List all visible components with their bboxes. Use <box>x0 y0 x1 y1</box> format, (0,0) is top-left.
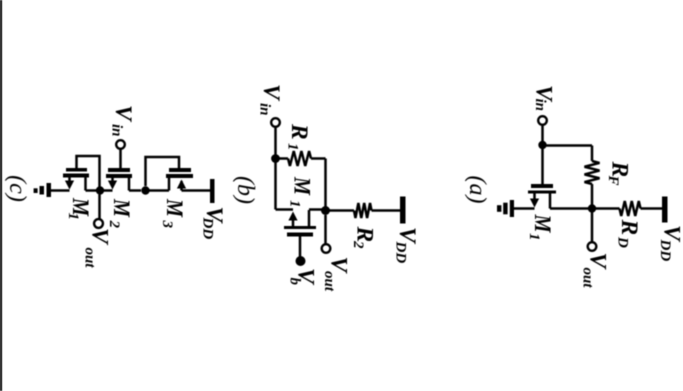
svg-text:out: out <box>321 271 337 292</box>
svg-text:R: R <box>286 123 312 140</box>
svg-text:2: 2 <box>350 240 366 249</box>
svg-text:in: in <box>532 99 548 112</box>
svg-text:DD: DD <box>393 241 409 264</box>
svg-text:3: 3 <box>159 220 175 229</box>
svg-text:R: R <box>616 219 642 236</box>
svg-text:F: F <box>605 175 621 186</box>
svg-text:M: M <box>162 198 189 218</box>
svg-text:1: 1 <box>65 213 81 221</box>
svg-text:D: D <box>615 236 631 248</box>
svg-text:M: M <box>109 198 136 218</box>
svg-text:V: V <box>258 84 284 102</box>
svg-text:out: out <box>82 248 98 269</box>
svg-text:V: V <box>87 228 113 246</box>
svg-text:(c): (c) <box>4 175 30 202</box>
svg-text:1: 1 <box>287 200 303 208</box>
svg-text:(a): (a) <box>464 176 490 204</box>
svg-text:1: 1 <box>285 143 301 151</box>
svg-text:DD: DD <box>200 217 216 240</box>
svg-text:M: M <box>530 214 557 234</box>
svg-text:1: 1 <box>526 233 542 241</box>
svg-text:R: R <box>352 226 378 243</box>
svg-text:(b): (b) <box>232 176 258 204</box>
svg-text:V: V <box>110 105 136 123</box>
svg-text:b: b <box>287 278 303 286</box>
svg-text:DD: DD <box>657 239 673 262</box>
svg-text:in: in <box>257 103 273 116</box>
svg-text:in: in <box>109 124 125 137</box>
svg-text:out: out <box>580 268 596 289</box>
svg-text:M: M <box>289 176 316 196</box>
